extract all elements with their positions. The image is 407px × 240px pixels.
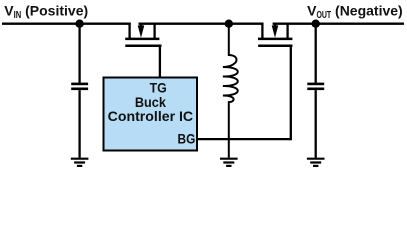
node VIN junction dot — [75, 20, 83, 28]
transistor Q1 arrow head — [138, 25, 145, 37]
capacitor C2 — [307, 24, 324, 158]
ground under C1 — [71, 159, 89, 166]
Buck Controller IC U1 — [104, 78, 198, 151]
transistor Q1 top-gate MOSFET — [125, 23, 161, 46]
wire top rail middle segment — [139, 23, 264, 25]
svg-text:BG: BG — [178, 131, 196, 147]
node VOUT junction dot — [312, 20, 320, 28]
capacitor C1 — [71, 24, 88, 158]
transistor Q2 top-gate MOSFET — [258, 23, 293, 46]
wire top rail left segment — [2, 23, 131, 25]
wire Q1 gate lead to TG pin — [159, 46, 161, 79]
svg-text:Controller IC: Controller IC — [108, 108, 194, 124]
ground under C2 — [307, 159, 325, 166]
wire top rail right segment — [273, 23, 404, 25]
node SW junction dot — [225, 20, 233, 28]
svg-text:TG: TG — [150, 80, 167, 96]
ground under L1 — [220, 159, 238, 166]
inductor L1 — [223, 24, 238, 158]
wire Q2 gate lead down to BG wire — [290, 46, 292, 140]
transistor Q2 arrow head — [272, 25, 279, 37]
wire BG pin to Q2 gate — [197, 138, 291, 140]
